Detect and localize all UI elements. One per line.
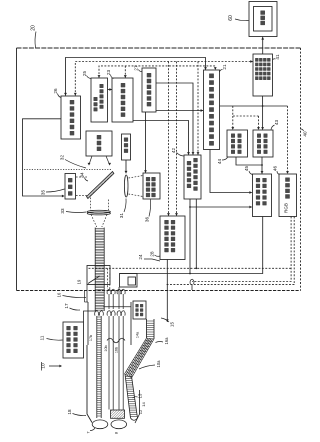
label 10 — [41, 362, 63, 371]
svg-text:41: 41 — [275, 54, 280, 60]
label 24 — [138, 254, 160, 261]
wire aperture-drive to syscon — [133, 121, 190, 155]
svg-text:10b: 10b — [104, 345, 108, 351]
scope wave boundary — [107, 338, 125, 343]
label 12 — [138, 409, 143, 414]
label 15 — [161, 318, 175, 327]
light guide tip diagonal — [88, 276, 100, 284]
wire monitor to video box — [261, 37, 264, 55]
box 26 lamp power — [61, 96, 81, 139]
svg-text:42: 42 — [171, 148, 176, 154]
wire 46 down right leg — [166, 217, 294, 285]
mirror 34 — [87, 172, 114, 199]
svg-text:18: 18 — [67, 409, 72, 415]
label 20 — [31, 25, 37, 47]
light source section line — [24, 169, 112, 171]
connector box C2 inner — [128, 277, 136, 285]
box 11 scope buttons — [63, 322, 84, 358]
box 27 dimming circuit — [142, 68, 156, 112]
label 23 — [106, 70, 114, 79]
label 16b — [114, 347, 118, 353]
contact row2 B — [117, 311, 125, 316]
label 40 — [301, 129, 308, 137]
wire motor to aperture — [125, 160, 128, 174]
svg-text:16: 16 — [57, 292, 62, 297]
box 36 sensor circuit — [143, 173, 160, 199]
label 11 — [40, 335, 63, 340]
svg-text:32: 32 — [60, 155, 65, 161]
aperture 31 — [124, 175, 128, 197]
label 25 — [82, 71, 91, 79]
label 16a — [156, 337, 170, 345]
svg-text:43: 43 — [274, 120, 279, 126]
solid bus B — [120, 217, 263, 275]
connector box C2 outer — [120, 274, 138, 288]
monitor 60 inner box — [254, 7, 273, 32]
label 60 — [228, 15, 249, 21]
svg-text:12: 12 — [138, 409, 143, 414]
label 45 — [244, 166, 253, 175]
svg-text:14: 14 — [141, 402, 146, 407]
contact row2 LG — [95, 311, 104, 316]
svg-text:13: 13 — [138, 393, 143, 398]
label 43 — [271, 120, 279, 130]
label 19 — [77, 279, 82, 284]
signal pair A — [109, 316, 113, 410]
label 31 — [119, 199, 126, 219]
label 21 — [220, 64, 228, 72]
front panel wire down — [166, 260, 169, 323]
dashed control bus to video box — [74, 60, 253, 95]
label 10a — [139, 360, 161, 369]
dashed tee to memories — [231, 106, 260, 130]
svg-text:31: 31 — [119, 213, 124, 219]
box 45 text — [256, 178, 267, 205]
box 42 system controller — [184, 155, 201, 199]
svg-text:16b: 16b — [114, 347, 118, 353]
box motor aperture text — [124, 138, 128, 153]
cord connector box 15 — [133, 301, 146, 319]
box 26 text — [70, 100, 75, 135]
main unit border (processor) — [17, 48, 301, 291]
svg-text:40: 40 — [303, 131, 308, 137]
wire video to memory — [261, 96, 264, 130]
svg-text:21: 21 — [222, 64, 227, 70]
box 28 text — [164, 220, 175, 252]
svg-text:35: 35 — [41, 190, 46, 196]
label 34 — [80, 172, 89, 181]
box 36 text — [146, 177, 156, 197]
monitor 60 outer box — [249, 2, 277, 37]
label 8 — [114, 431, 119, 434]
box motor aperture — [122, 134, 131, 160]
scope outline right — [135, 390, 140, 423]
label 28 — [150, 251, 161, 257]
label 16c — [57, 292, 87, 298]
svg-text:60: 60 — [228, 15, 234, 21]
label 17 — [64, 303, 80, 310]
contact on dashed leg — [190, 279, 194, 290]
bus branch to front panel 1 — [167, 62, 170, 216]
dashed bus A — [89, 267, 292, 269]
wire memory to 45 — [236, 157, 263, 174]
box 42 text — [187, 158, 198, 191]
ccd hatched box — [111, 410, 125, 418]
dashed drop pair — [108, 268, 110, 289]
beam path — [91, 198, 109, 228]
box 25 mirror drive — [91, 78, 108, 122]
box 43b memory — [253, 130, 273, 157]
svg-text:RGB: RGB — [284, 203, 289, 213]
label 41 — [273, 54, 281, 60]
wire syscon to 45 left — [189, 199, 252, 274]
box 25 text — [94, 84, 104, 111]
svg-text:33: 33 — [60, 208, 65, 214]
box 28 front panel — [160, 216, 185, 260]
label 14 — [141, 402, 146, 407]
bus branch to front panel 2 — [175, 62, 178, 216]
second dashed bus — [98, 66, 217, 78]
monitor text — [260, 11, 265, 26]
box 21 text — [209, 74, 214, 146]
svg-text:23: 23 — [106, 70, 111, 76]
scope outline left — [87, 345, 92, 423]
light guide band — [95, 228, 104, 312]
box 23 aperture drive — [112, 78, 133, 122]
svg-text:44: 44 — [217, 159, 222, 165]
svg-text:14a: 14a — [136, 331, 140, 338]
wires row1 down — [109, 287, 123, 309]
wire dimming to syscon — [156, 83, 194, 155]
wire dimming to timing — [156, 109, 203, 112]
svg-text:25: 25 — [82, 71, 87, 77]
box 27 text — [147, 73, 152, 106]
label 10b — [104, 345, 108, 351]
box 41 video process — [253, 54, 273, 96]
contact row2 A — [107, 311, 115, 316]
svg-text:28: 28 — [150, 251, 155, 257]
svg-text:17b: 17b — [89, 335, 93, 341]
box motor text — [97, 135, 102, 151]
wire lamp power to lamp — [23, 119, 65, 198]
aperture link dashes — [129, 176, 144, 197]
svg-text:19: 19 — [77, 279, 82, 284]
svg-text:24: 24 — [138, 254, 143, 260]
svg-text:20: 20 — [31, 25, 37, 31]
connector box C1 — [87, 266, 110, 285]
label 46 — [273, 166, 280, 175]
contact pair row1 b — [117, 289, 125, 294]
contact pair row1 a — [107, 289, 115, 294]
connector shell left — [85, 285, 89, 303]
svg-text:11: 11 — [40, 335, 46, 340]
box 46 light control — [279, 174, 297, 217]
light guide lines scope — [97, 316, 101, 418]
box 43b text — [257, 134, 268, 154]
svg-text:45: 45 — [244, 166, 249, 172]
wire box25 to box23 — [108, 88, 113, 91]
box 46 text — [284, 178, 290, 213]
label 44 — [217, 158, 228, 165]
bus2 branch box23 — [124, 66, 127, 78]
label 17b — [89, 335, 93, 341]
svg-text:10a: 10a — [156, 360, 161, 368]
box 45 output process — [253, 174, 272, 217]
label 42 — [171, 148, 184, 156]
box 11 text — [66, 326, 77, 353]
svg-text:26: 26 — [53, 88, 58, 94]
scope shell — [88, 302, 131, 345]
box 35 lamp text — [68, 178, 72, 196]
label 33 — [60, 208, 87, 214]
bus branch to syscon — [197, 62, 200, 155]
motor-mirror arrows — [88, 156, 111, 166]
label 35 — [41, 189, 65, 195]
box 41 text — [255, 58, 270, 80]
label 13 — [133, 393, 143, 398]
objective lens — [92, 420, 108, 429]
wire timing to 46 — [220, 106, 289, 174]
wire 27 to 36 — [144, 112, 147, 173]
box 21 timing controller — [204, 70, 220, 150]
svg-text:46: 46 — [273, 166, 278, 172]
wire syscon down 2 — [195, 199, 197, 269]
signal pair B — [119, 316, 123, 410]
box 23 text — [121, 83, 126, 117]
svg-text:17: 17 — [64, 303, 69, 309]
box 35 lamp — [65, 174, 76, 200]
wire timing to 45 left — [210, 150, 252, 194]
illumination lens — [111, 420, 127, 429]
label 27 — [134, 65, 143, 72]
condenser lens 33 — [87, 210, 110, 215]
label 14a — [136, 331, 140, 338]
box 43a text — [231, 134, 242, 154]
wire button to scope — [84, 311, 97, 322]
label 32 — [60, 155, 87, 168]
svg-text:16a: 16a — [164, 337, 169, 345]
box 43a memory — [227, 130, 248, 157]
label 36 — [145, 200, 151, 223]
label 26 — [53, 88, 61, 97]
beam lamp to mirror — [76, 177, 88, 196]
wire timing to lamp-drive bus — [64, 58, 207, 96]
label 7 — [86, 428, 96, 434]
universal cord bend — [125, 319, 155, 378]
cord band lower — [125, 374, 138, 420]
box 15 text — [135, 304, 143, 316]
label 18 — [67, 409, 86, 416]
box motor mirror — [86, 131, 112, 156]
svg-text:36: 36 — [145, 217, 150, 223]
svg-text:15: 15 — [170, 322, 175, 328]
wire 46 down left leg — [192, 217, 291, 282]
